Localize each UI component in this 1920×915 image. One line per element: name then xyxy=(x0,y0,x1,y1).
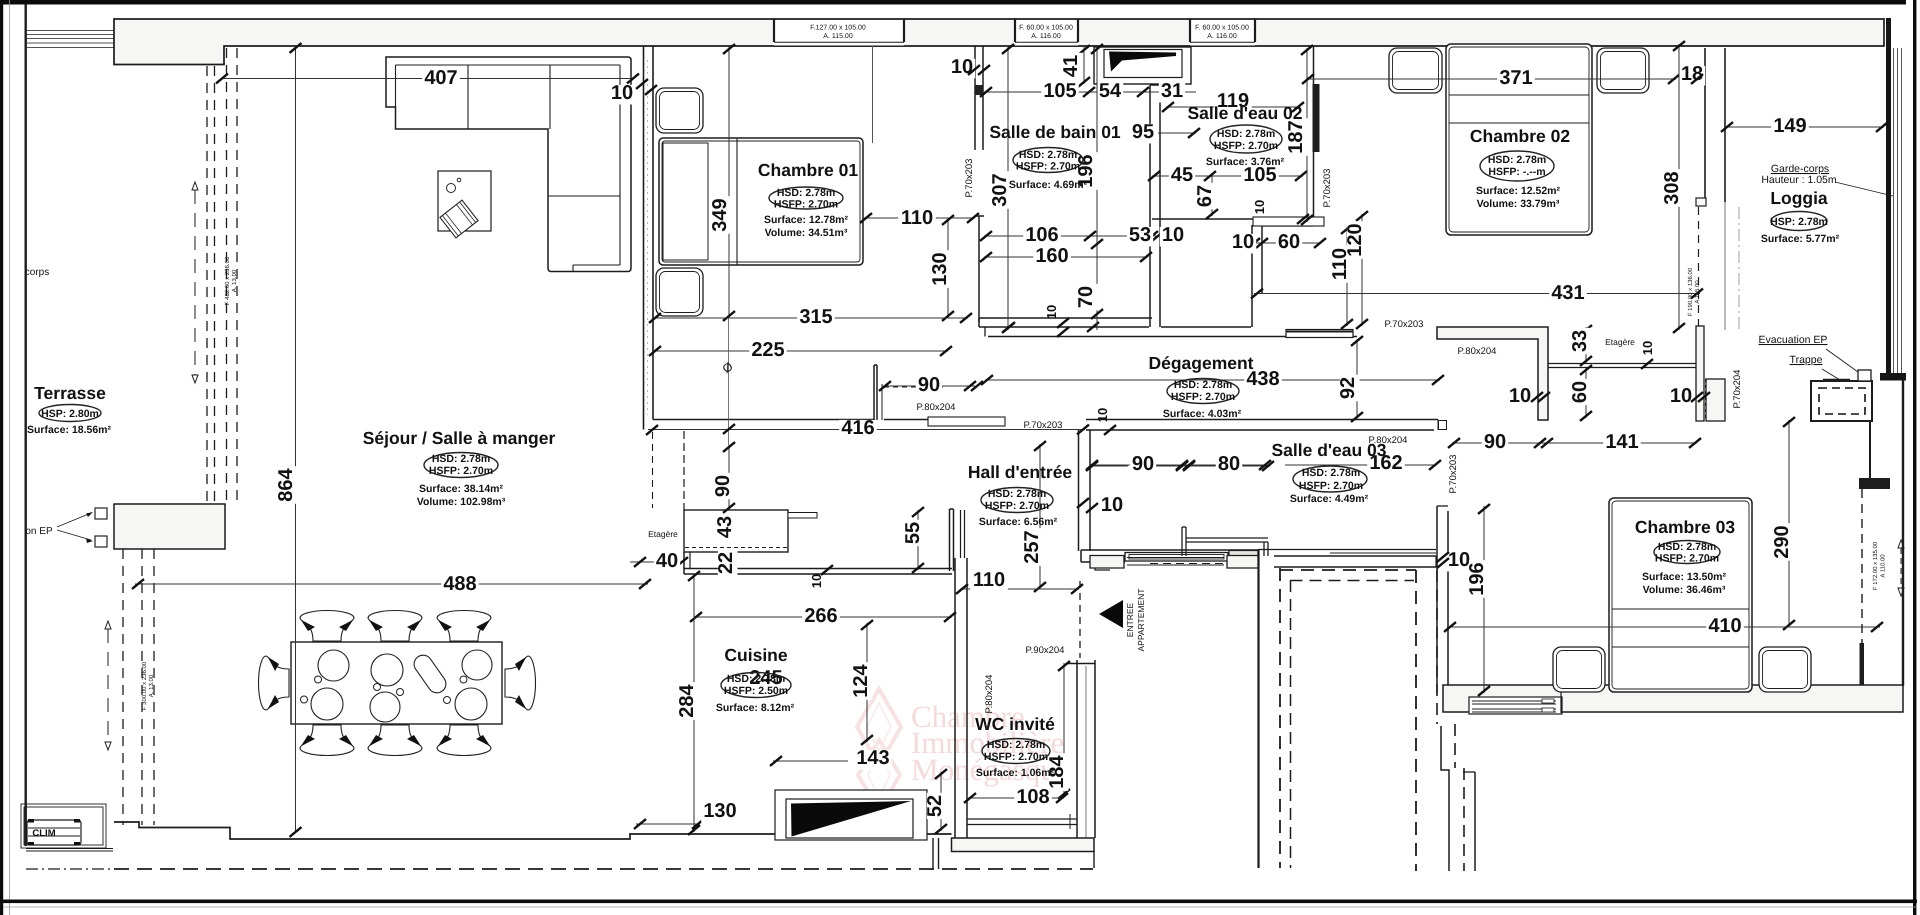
svg-text:Loggia: Loggia xyxy=(1770,188,1828,208)
inner dashed rect xyxy=(1290,580,1292,868)
svg-text:90: 90 xyxy=(712,475,734,497)
dim 92 xyxy=(1356,339,1358,419)
dim 90/80 eau03 xyxy=(1090,464,1267,466)
svg-text:Surface: 8.12m²: Surface: 8.12m² xyxy=(716,702,795,714)
dim 416 xyxy=(648,429,1085,431)
svg-text:95: 95 xyxy=(1132,121,1154,143)
svg-text:P.90x204: P.90x204 xyxy=(1026,645,1065,656)
svg-text:130: 130 xyxy=(929,252,951,285)
svg-text:HSD: 2.78m: HSD: 2.78m xyxy=(1217,128,1275,140)
svg-text:P.80x204: P.80x204 xyxy=(917,402,956,413)
nightstand chambre02 right xyxy=(1597,48,1649,93)
dim 196 chambre03 xyxy=(1483,506,1485,693)
window loggia dashed xyxy=(1698,207,1700,326)
dim 110 ch01 xyxy=(864,217,975,219)
ENTREE APPARTEMENT arrow xyxy=(1099,600,1123,628)
svg-text:43: 43 xyxy=(714,516,736,538)
svg-text:HSD: 2.78m: HSD: 2.78m xyxy=(1488,154,1546,166)
trappe box xyxy=(1811,381,1872,421)
svg-text:410: 410 xyxy=(1708,615,1741,637)
dim 22 xyxy=(715,550,737,576)
nightstand chambre01 top xyxy=(656,88,703,133)
svg-text:Cuisine: Cuisine xyxy=(724,645,787,665)
closet shelf top xyxy=(1253,217,1324,226)
wc east wall xyxy=(1076,660,1078,838)
dashed arrow chambre03 window xyxy=(1900,548,1902,588)
svg-text:488: 488 xyxy=(443,573,476,595)
svg-text:F 300.00 x 236.00: F 300.00 x 236.00 xyxy=(141,661,148,710)
dim 124 xyxy=(866,623,868,742)
svg-text:308: 308 xyxy=(1661,171,1683,204)
svg-text:110: 110 xyxy=(901,207,933,229)
shelf band corridor xyxy=(1286,330,1353,338)
svg-text:Surface: 12.78m²: Surface: 12.78m² xyxy=(764,214,849,226)
dim 10 séjour/ch01 xyxy=(609,85,635,105)
closet walls below eau02 xyxy=(1251,225,1253,327)
CLIM unit xyxy=(21,804,106,848)
dim 90/80 hall xyxy=(1090,465,1270,467)
dim 438 corridor xyxy=(985,379,1440,381)
svg-text:10: 10 xyxy=(1044,305,1059,319)
wall: kitchen north xyxy=(684,568,952,570)
stairs solid step xyxy=(1441,726,1449,871)
wall: séjour south band xyxy=(114,822,952,839)
dim 52 wc xyxy=(940,772,942,831)
svg-text:P.70x203: P.70x203 xyxy=(1024,420,1063,431)
svg-text:864: 864 xyxy=(275,467,297,501)
window F.60 #1 opening xyxy=(1015,20,1078,46)
svg-text:10: 10 xyxy=(611,82,633,104)
svg-text:HSFP: 2.50m: HSFP: 2.50m xyxy=(724,685,788,697)
svg-text:F 482.00 x 236.00: F 482.00 x 236.00 xyxy=(224,256,231,305)
svg-text:HSP: 2.78m: HSP: 2.78m xyxy=(1770,216,1828,228)
svg-text:284: 284 xyxy=(676,683,698,717)
svg-text:70: 70 xyxy=(1075,286,1097,308)
dim 55 xyxy=(917,510,919,570)
svg-text:A. 13.00: A. 13.00 xyxy=(231,269,238,292)
dim 307 xyxy=(1007,47,1009,330)
svg-text:Séjour / Salle à manger: Séjour / Salle à manger xyxy=(363,428,556,448)
svg-text:F 190.00 x 136.00: F 190.00 x 136.00 xyxy=(1687,267,1694,316)
svg-text:143: 143 xyxy=(856,747,889,769)
svg-text:HSFP: 2.70m: HSFP: 2.70m xyxy=(985,500,1049,512)
dims 105/54/31 bain01 xyxy=(984,91,1196,93)
dining chairs xyxy=(300,611,354,642)
balcony rails top-left xyxy=(27,30,114,32)
EP block terrasse xyxy=(114,504,225,549)
dim 95 xyxy=(1158,132,1196,134)
svg-text:P.80x204: P.80x204 xyxy=(1458,346,1497,357)
svg-text:257: 257 xyxy=(1021,530,1043,563)
dim 149 loggia xyxy=(1725,126,1884,128)
dim 10 pair corridor right xyxy=(1507,388,1533,408)
svg-text:Trappe: Trappe xyxy=(1790,354,1823,366)
dim 119 xyxy=(1166,106,1300,108)
svg-text:10: 10 xyxy=(809,574,824,588)
svg-text:266: 266 xyxy=(804,605,837,627)
svg-text:130: 130 xyxy=(703,800,736,822)
svg-text:Surface: 4.49m²: Surface: 4.49m² xyxy=(1290,493,1369,505)
svg-text:P.70x203: P.70x203 xyxy=(964,159,975,198)
svg-text:Volume: 36.46m³: Volume: 36.46m³ xyxy=(1643,584,1726,596)
dim 162 xyxy=(1285,464,1437,466)
wall: corridor south xyxy=(1086,419,1438,421)
wall: salle de bain 01 west xyxy=(974,46,976,150)
svg-text:10: 10 xyxy=(1232,231,1254,253)
svg-text:HSD: 2.78m: HSD: 2.78m xyxy=(1174,379,1232,391)
svg-text:HSD: 2.78m: HSD: 2.78m xyxy=(988,488,1046,500)
étagère shelf lines xyxy=(1548,363,1696,365)
svg-text:149: 149 xyxy=(1773,115,1806,137)
svg-text:HSFP: 2.70m: HSFP: 2.70m xyxy=(774,199,838,211)
watermark logo xyxy=(857,689,901,810)
kitchen west wall line xyxy=(683,431,685,510)
wall: eau02 south xyxy=(1152,218,1313,220)
svg-text:Surface: 6.56m²: Surface: 6.56m² xyxy=(979,516,1058,528)
bed chambre 02 xyxy=(1446,44,1592,235)
svg-text:106: 106 xyxy=(1025,224,1058,246)
svg-text:A. 116.00: A. 116.00 xyxy=(1207,33,1237,40)
dim 315 xyxy=(653,317,968,319)
page top border bar xyxy=(0,0,1906,5)
svg-text:Surface: 3.76m²: Surface: 3.76m² xyxy=(1206,156,1285,168)
dim 143 xyxy=(773,760,848,762)
svg-text:54: 54 xyxy=(1099,80,1122,102)
corridor north wall line xyxy=(988,336,1357,338)
svg-text:F.127.00 x 105.00: F.127.00 x 105.00 xyxy=(810,25,866,32)
shower eau03 xyxy=(1181,527,1183,556)
svg-text:corps: corps xyxy=(25,267,49,278)
svg-text:A. 116.00: A. 116.00 xyxy=(1031,33,1061,40)
nightstand chambre01 bottom xyxy=(656,268,703,316)
svg-text:307: 307 xyxy=(989,173,1011,206)
dims 106/53/10 xyxy=(984,235,1160,237)
wall: chambre03 west xyxy=(1436,506,1438,693)
svg-text:Surface: 4.03m²: Surface: 4.03m² xyxy=(1163,408,1242,420)
svg-text:HSD: 2.78m: HSD: 2.78m xyxy=(727,673,785,685)
svg-text:124: 124 xyxy=(850,663,872,697)
svg-text:HSD: 2.78m: HSD: 2.78m xyxy=(777,187,835,199)
dim 45/105 eau02 xyxy=(1152,175,1303,177)
svg-text:A. 13.00: A. 13.00 xyxy=(148,674,155,697)
dim 130 ch01 xyxy=(947,218,949,318)
dim 130 cuisine xyxy=(636,823,700,825)
dim 41 xyxy=(1083,47,1085,84)
wall: eau02/chambre02 xyxy=(1313,46,1315,222)
svg-text:Evacuation EP: Evacuation EP xyxy=(1759,334,1828,346)
dim 864 xyxy=(295,48,297,832)
svg-text:90: 90 xyxy=(1484,431,1506,453)
door dash P.90x204 hall xyxy=(1079,581,1081,658)
svg-text:10: 10 xyxy=(1509,385,1531,407)
svg-text:349: 349 xyxy=(709,198,731,231)
radiator chambre03 xyxy=(1469,697,1562,714)
dim 90 corridor left xyxy=(883,385,975,387)
svg-text:196: 196 xyxy=(1466,562,1488,595)
wall: eau03 south xyxy=(1090,556,1124,569)
svg-text:HSP: 2.80m: HSP: 2.80m xyxy=(41,408,99,420)
svg-text:P.70x204: P.70x204 xyxy=(1732,370,1743,409)
dim 431 xyxy=(1254,293,1700,295)
svg-text:290: 290 xyxy=(1771,525,1793,558)
svg-text:on EP: on EP xyxy=(25,526,53,537)
svg-text:HSD: 2.78m: HSD: 2.78m xyxy=(1658,541,1716,553)
page left border xyxy=(0,0,3,915)
kitchen oven/door xyxy=(775,790,927,840)
svg-text:Volume: 34.51m³: Volume: 34.51m³ xyxy=(765,227,848,239)
svg-text:Surface: 12.52m²: Surface: 12.52m² xyxy=(1476,185,1561,197)
wc south wall block xyxy=(952,838,1095,852)
svg-text:10: 10 xyxy=(1640,341,1655,355)
svg-text:Surface: 1.06m²: Surface: 1.06m² xyxy=(976,767,1055,779)
svg-text:Chambre 02: Chambre 02 xyxy=(1470,126,1570,146)
svg-text:HSFP: 2.70m: HSFP: 2.70m xyxy=(1171,391,1235,403)
entry door panel xyxy=(1125,553,1228,562)
svg-text:Volume: 33.79m³: Volume: 33.79m³ xyxy=(1477,198,1560,210)
wall stub door P.80x204 chambre01 xyxy=(873,365,875,420)
svg-text:40: 40 xyxy=(656,550,678,572)
dim 110 wc top xyxy=(960,588,1079,590)
svg-text:Terrasse: Terrasse xyxy=(34,383,106,403)
terrasse sliding window dashes lower xyxy=(122,549,124,825)
svg-text:407: 407 xyxy=(424,67,457,89)
svg-text:A 110.00: A 110.00 xyxy=(1880,554,1887,578)
dim 10/60 closet xyxy=(1252,242,1322,244)
svg-text:Dégagement: Dégagement xyxy=(1148,353,1253,373)
dim 40 xyxy=(630,561,684,563)
dim 257 xyxy=(1039,444,1041,589)
svg-text:67: 67 xyxy=(1194,185,1216,207)
terrasse sliding window dashes upper xyxy=(206,66,208,504)
svg-text:60: 60 xyxy=(1569,381,1591,403)
radiator/tub salle de bain 01 xyxy=(1094,47,1191,84)
dim 308 xyxy=(1678,44,1680,330)
dim 488 xyxy=(135,583,648,585)
dim 371 ch02 xyxy=(1306,78,1676,80)
svg-text:F. 60.00 x 105.00: F. 60.00 x 105.00 xyxy=(1195,25,1249,32)
svg-text:60: 60 xyxy=(1278,231,1300,253)
svg-text:HSFP: 2.70m: HSFP: 2.70m xyxy=(429,465,493,477)
svg-text:Hall d'entrée: Hall d'entrée xyxy=(968,462,1073,482)
wardrobe edge chambre 01 xyxy=(872,46,874,143)
svg-text:371: 371 xyxy=(1499,67,1532,89)
svg-text:110: 110 xyxy=(973,569,1005,591)
wall: L-shape corridor east xyxy=(1437,327,1548,420)
svg-text:F 172.00 x 135.00: F 172.00 x 135.00 xyxy=(1872,541,1879,590)
svg-text:10: 10 xyxy=(1670,385,1692,407)
bed chambre 01 xyxy=(659,138,863,265)
nightstand chambre03 right xyxy=(1759,647,1811,692)
dashed rect lower right xyxy=(1279,568,1281,868)
svg-text:WC invité: WC invité xyxy=(975,714,1055,734)
window F.127 opening xyxy=(774,20,904,46)
dim 266 cuisine xyxy=(694,616,952,618)
dim 67 xyxy=(1211,176,1213,216)
dashed stairs xyxy=(1436,570,1438,724)
svg-text:HSD: 2.78m: HSD: 2.78m xyxy=(1302,467,1360,479)
terrasse arrow line upper xyxy=(194,190,196,375)
svg-text:Surface: 5.77m²: Surface: 5.77m² xyxy=(1761,233,1840,245)
svg-text:141: 141 xyxy=(1605,431,1638,453)
svg-text:F. 60.00 x 105.00: F. 60.00 x 105.00 xyxy=(1019,25,1073,32)
dim 43 xyxy=(714,514,736,540)
svg-text:P.80x204: P.80x204 xyxy=(984,675,995,714)
svg-text:55: 55 xyxy=(902,522,924,544)
svg-text:CLIM: CLIM xyxy=(32,828,55,839)
dim 187 xyxy=(1306,48,1308,222)
wall: hall east xyxy=(1078,430,1080,551)
svg-text:92: 92 xyxy=(1337,377,1359,399)
svg-text:Etagère: Etagère xyxy=(648,529,678,539)
wall: chambre03 south band xyxy=(1443,685,1903,712)
svg-text:10: 10 xyxy=(1095,408,1110,422)
dim 407 xyxy=(222,78,633,80)
svg-text:416: 416 xyxy=(841,417,874,439)
svg-text:10: 10 xyxy=(1162,224,1184,246)
svg-text:P.70x203: P.70x203 xyxy=(1448,455,1459,494)
wall: loggia west xyxy=(1704,48,1706,202)
wall: hall south + entry door xyxy=(1081,549,1258,551)
svg-text:160: 160 xyxy=(1035,245,1068,267)
dim 245 xyxy=(747,670,785,690)
svg-text:33: 33 xyxy=(1569,330,1591,352)
hall shelf rect xyxy=(928,417,1005,426)
wall: chambre01 south xyxy=(653,419,875,421)
dim 18 xyxy=(1679,66,1705,86)
svg-text:Hauteur : 1.05m: Hauteur : 1.05m xyxy=(1761,174,1837,186)
svg-text:108: 108 xyxy=(1016,786,1049,808)
window F.172 chambre03 dashed xyxy=(1861,489,1863,643)
svg-text:P.70x203: P.70x203 xyxy=(1322,169,1333,208)
svg-text:HSFP: 2.70m: HSFP: 2.70m xyxy=(1214,140,1278,152)
nightstand chambre03 left xyxy=(1553,647,1605,692)
dim 10 chambre03 xyxy=(1446,552,1472,572)
dim 196 bain01 xyxy=(1096,47,1098,330)
plates xyxy=(318,650,349,681)
svg-text:HSD: 2.78m: HSD: 2.78m xyxy=(987,739,1045,751)
svg-text:HSD: 2.78m: HSD: 2.78m xyxy=(432,453,490,465)
svg-text:90: 90 xyxy=(918,374,940,396)
svg-text:45: 45 xyxy=(1171,164,1193,186)
dim 10 bain01 left xyxy=(949,59,975,79)
dim 284 xyxy=(693,574,695,832)
side table séjour xyxy=(438,171,491,231)
loggia garde-corps rails right xyxy=(1893,48,1895,373)
sofa séjour (L-shape) xyxy=(386,57,631,272)
wall: séjour/chambre01 partition xyxy=(643,46,645,430)
dim 410 xyxy=(1447,626,1880,628)
svg-text:187: 187 xyxy=(1285,120,1307,153)
dim 184 xyxy=(1063,663,1065,796)
dim 160 xyxy=(984,256,1148,258)
wall: entry area east xyxy=(1257,550,1259,868)
svg-text:41: 41 xyxy=(1060,55,1082,77)
svg-text:120: 120 xyxy=(1344,223,1366,256)
toilet wc xyxy=(967,818,1077,820)
svg-text:Chambre 01: Chambre 01 xyxy=(758,160,858,180)
svg-text:431: 431 xyxy=(1551,282,1584,304)
dim 90/141 xyxy=(1452,442,1697,444)
svg-text:80: 80 xyxy=(1218,453,1240,475)
kitchen cabinet xyxy=(684,510,788,552)
svg-text:Volume: 102.98m³: Volume: 102.98m³ xyxy=(417,496,506,508)
terrasse arrow line lower xyxy=(107,629,109,742)
wall: kitchen east xyxy=(949,509,951,571)
window F.60 #2 opening xyxy=(1190,20,1255,46)
wall: left outer (terrasse west) xyxy=(25,4,27,846)
wall: salle de bain 01 south xyxy=(979,317,1152,319)
dashed boundary bottom xyxy=(26,868,114,870)
svg-text:P.80x204: P.80x204 xyxy=(1369,435,1408,446)
svg-text:53: 53 xyxy=(1129,224,1151,246)
dining table xyxy=(291,642,502,724)
dim 225 xyxy=(653,350,948,352)
svg-text:10: 10 xyxy=(1252,200,1267,214)
svg-text:HSD: 2.78m: HSD: 2.78m xyxy=(1019,149,1077,161)
wall: top band (north facade) xyxy=(114,19,1884,65)
svg-text:ENTREE: ENTREE xyxy=(1125,602,1135,637)
svg-text:HSFP: 2.70m: HSFP: 2.70m xyxy=(1016,161,1080,173)
svg-text:HSFP: 2.70m: HSFP: 2.70m xyxy=(1655,553,1719,565)
page right border xyxy=(1913,0,1916,915)
svg-text:HSFP: -.--m: HSFP: -.--m xyxy=(1488,166,1545,178)
svg-text:Surface: 38.14m²: Surface: 38.14m² xyxy=(419,483,504,495)
svg-text:31: 31 xyxy=(1161,80,1183,102)
svg-text:Chambre 03: Chambre 03 xyxy=(1635,517,1735,537)
svg-text:A. 115.00: A. 115.00 xyxy=(823,33,853,40)
svg-text:90: 90 xyxy=(1132,453,1154,475)
dim 33/10/60 étagère xyxy=(1585,327,1587,363)
diameter symbol xyxy=(728,318,730,445)
svg-text:10: 10 xyxy=(1101,494,1123,516)
wall: loggia west lower xyxy=(1696,326,1704,421)
svg-text:52: 52 xyxy=(924,795,946,817)
svg-text:Surface: 13.50m²: Surface: 13.50m² xyxy=(1642,571,1727,583)
svg-text:225: 225 xyxy=(751,339,784,361)
bed chambre 03 xyxy=(1609,498,1752,692)
svg-text:P.70x203: P.70x203 xyxy=(1385,319,1424,330)
svg-text:315: 315 xyxy=(799,306,832,328)
svg-text:Etagère: Etagère xyxy=(1605,337,1635,347)
svg-text:Salle d'eau 02: Salle d'eau 02 xyxy=(1187,103,1302,123)
svg-text:105: 105 xyxy=(1043,80,1076,102)
wall: kitchen/hall/wc divider xyxy=(954,558,956,838)
svg-text:APPARTEMENT: APPARTEMENT xyxy=(1136,589,1146,652)
svg-text:HSFP: 2.70m: HSFP: 2.70m xyxy=(984,751,1048,763)
svg-text:22: 22 xyxy=(715,552,737,574)
svg-text:Surface: 4.69m²: Surface: 4.69m² xyxy=(1009,179,1088,191)
page bottom border xyxy=(3,900,1917,904)
dim 108 xyxy=(968,797,1064,799)
wall: bain01/eau02 divider xyxy=(1149,85,1151,327)
svg-text:Salle de bain 01: Salle de bain 01 xyxy=(989,122,1121,142)
dim 349 xyxy=(728,47,730,318)
nightstand chambre02 left xyxy=(1389,48,1442,93)
svg-text:HSFP: 2.70m: HSFP: 2.70m xyxy=(1299,480,1363,492)
wall: eau03/chambre03 north piece xyxy=(1258,549,1436,551)
dim 110/120 closet xyxy=(1346,227,1348,326)
dim 290 xyxy=(1788,420,1790,627)
wall: right outer (east) xyxy=(1886,18,1891,373)
dim 90 cuisine xyxy=(728,445,730,510)
svg-text:Surface: 18.56m²: Surface: 18.56m² xyxy=(27,424,112,436)
dim 10 hall xyxy=(1099,497,1125,517)
